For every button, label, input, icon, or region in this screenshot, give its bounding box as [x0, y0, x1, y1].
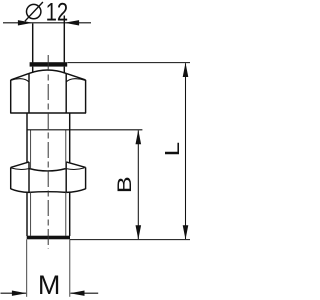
svg-text:B: B — [115, 176, 136, 193]
svg-text:L: L — [162, 142, 184, 157]
svg-text:12: 12 — [46, 0, 69, 26]
svg-text:M: M — [38, 270, 61, 300]
